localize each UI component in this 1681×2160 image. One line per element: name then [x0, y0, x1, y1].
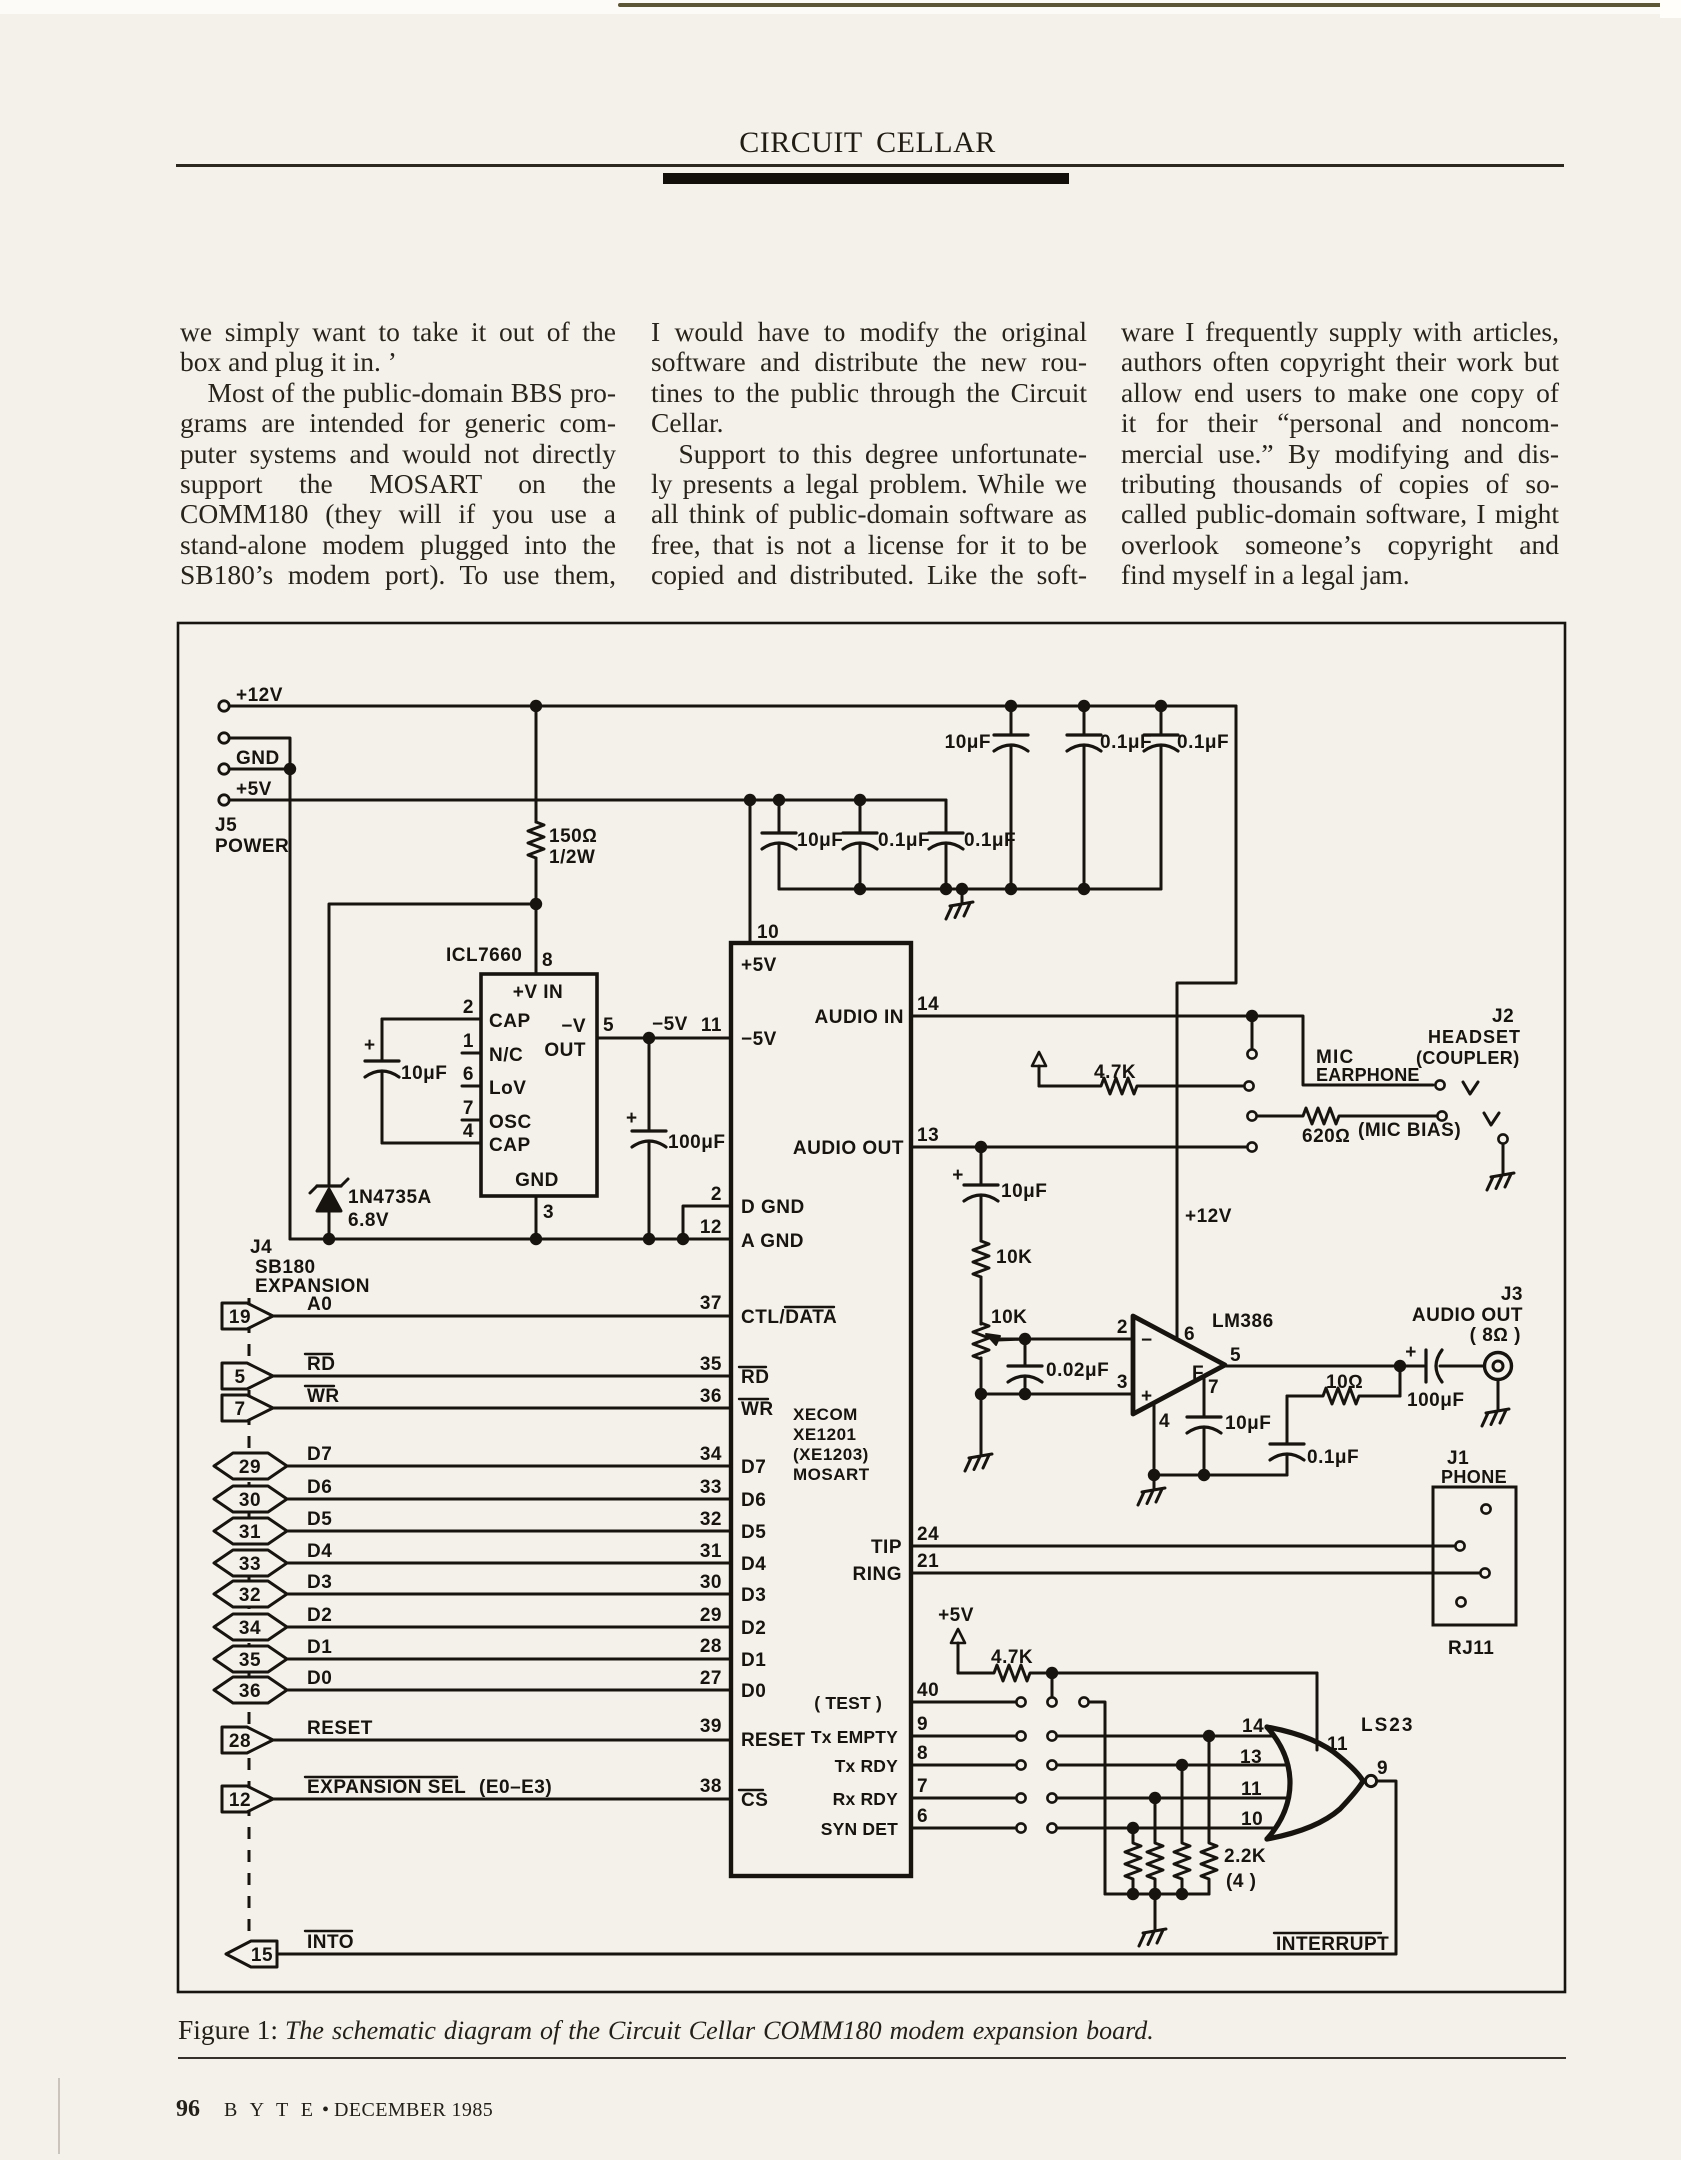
svg-text:GND: GND — [236, 748, 280, 769]
svg-text:INTERRUPT: INTERRUPT — [1276, 1934, 1389, 1955]
svg-text:10μF: 10μF — [401, 1063, 447, 1084]
svg-text:28: 28 — [229, 1731, 251, 1752]
svg-text:10μF: 10μF — [1225, 1413, 1271, 1434]
wire RD — [273, 1375, 731, 1378]
svg-text:0.1μF: 0.1μF — [878, 830, 930, 851]
svg-text:7: 7 — [1208, 1377, 1219, 1398]
wire D GND jog to pin 2 — [683, 1206, 731, 1239]
svg-text:ICL7660: ICL7660 — [446, 945, 522, 966]
ground symbol J3 — [1497, 1396, 1500, 1409]
svg-text:2: 2 — [463, 997, 474, 1018]
switch contact Tx RDY left — [1016, 1760, 1025, 1769]
svg-text:4: 4 — [463, 1121, 474, 1142]
connector J3 phono jack — [1485, 1353, 1512, 1380]
svg-text:0.1μF: 0.1μF — [964, 830, 1016, 851]
junction dot +12V/10uF — [1005, 700, 1017, 712]
svg-text:+: + — [1405, 1342, 1417, 1363]
connector J1 PHONE RJ11 body — [1433, 1487, 1516, 1625]
svg-text:OSC: OSC — [489, 1112, 532, 1133]
resistor 620 ohm (MIC BIAS) — [1257, 1108, 1461, 1147]
svg-text:620Ω: 620Ω — [1302, 1126, 1350, 1147]
J1 contact TIP — [1455, 1541, 1464, 1550]
IC U1 XECOM XE1201 MOSART body — [731, 943, 911, 1876]
switch contact Rx RDY right — [1047, 1793, 1056, 1802]
svg-text:10K: 10K — [991, 1307, 1027, 1328]
svg-text:11: 11 — [1241, 1779, 1262, 1800]
label J1 PHONE — [1441, 1448, 1507, 1487]
ground symbol 2.2K rail — [1154, 1916, 1157, 1929]
connector J5 reference label — [215, 815, 289, 857]
gate U4 LS23 4-input NOR — [1267, 1727, 1363, 1839]
wire pot ground stem — [980, 1394, 983, 1441]
header thin rule — [176, 164, 1564, 167]
svg-text:100μF: 100μF — [668, 1132, 725, 1153]
wire pin 4 to ground rail — [1153, 1404, 1156, 1475]
svg-text:10: 10 — [1241, 1809, 1263, 1830]
svg-text:+5V: +5V — [938, 1605, 974, 1626]
capacitor 0.1uF bypass (+12V row) — [1067, 706, 1152, 889]
svg-text:34: 34 — [239, 1618, 261, 1639]
wire LM386 ground rail — [1154, 1474, 1287, 1477]
svg-text:D7: D7 — [741, 1457, 766, 1478]
svg-text:AUDIO OUT: AUDIO OUT — [793, 1138, 904, 1159]
svg-text:5: 5 — [1230, 1345, 1241, 1366]
op-amp U3 LM386 — [1133, 1316, 1225, 1414]
connector J3 AUDIO OUT (8 ohm) label — [1412, 1284, 1523, 1346]
junction dot +5V / 10uF — [773, 794, 785, 806]
svg-text:LoV: LoV — [489, 1078, 526, 1099]
wire bypass ground rail — [779, 888, 1161, 891]
svg-text:SB180: SB180 — [255, 1257, 316, 1278]
svg-text:35: 35 — [239, 1650, 261, 1671]
resistor 2.2K #3 — [1174, 1765, 1190, 1894]
tag pin 30 — [214, 1486, 287, 1512]
svg-text:D0: D0 — [307, 1668, 332, 1689]
svg-text:4: 4 — [1159, 1411, 1170, 1432]
svg-text:100μF: 100μF — [1407, 1390, 1464, 1411]
svg-text:40: 40 — [917, 1680, 939, 1701]
svg-text:CAP: CAP — [489, 1135, 531, 1156]
junction dot 4.7K / switch common — [1046, 1667, 1058, 1679]
wire (TEST) pin 40 — [911, 1701, 1015, 1704]
capacitor 10uF bypass (+12V row) — [945, 706, 1028, 889]
switch contact 4.7K end — [1244, 1081, 1253, 1090]
svg-text:D4: D4 — [741, 1554, 766, 1575]
svg-text:34: 34 — [700, 1444, 722, 1465]
svg-text:GND: GND — [515, 1170, 559, 1191]
svg-text:21: 21 — [917, 1551, 939, 1572]
svg-text:+: + — [626, 1108, 638, 1129]
wire WR — [273, 1407, 731, 1410]
svg-text:15: 15 — [251, 1945, 273, 1966]
svg-text:6.8V: 6.8V — [348, 1210, 389, 1231]
svg-text:A GND: A GND — [741, 1231, 804, 1252]
svg-text:RING: RING — [853, 1564, 903, 1585]
junction dots on bypass ground rail — [854, 883, 1090, 895]
capacitor 10uF bypass pin 7 — [1187, 1377, 1271, 1475]
wire J2 ground stem — [1502, 1144, 1505, 1160]
svg-text:11: 11 — [1327, 1734, 1348, 1755]
svg-text:11: 11 — [701, 1015, 722, 1036]
junction dot 2.2K #4 — [1203, 1730, 1215, 1742]
svg-text:RD: RD — [307, 1354, 335, 1375]
svg-text:36: 36 — [239, 1681, 261, 1702]
svg-text:J4: J4 — [250, 1237, 272, 1258]
svg-text:13: 13 — [1240, 1747, 1262, 1768]
J2 ground contact — [1498, 1134, 1507, 1143]
junction dot 10uF/ground — [1198, 1469, 1210, 1481]
junction dot AUDIO IN / MIC contact — [1246, 1010, 1258, 1022]
svg-text:5: 5 — [234, 1367, 245, 1388]
switch contact TEST ground side — [1079, 1697, 1088, 1706]
svg-text:35: 35 — [700, 1354, 722, 1375]
svg-text:N/C: N/C — [489, 1045, 523, 1066]
svg-text:D4: D4 — [307, 1541, 332, 1562]
svg-text:J1: J1 — [1447, 1448, 1469, 1469]
svg-text:RESET: RESET — [307, 1718, 373, 1739]
capacitor 0.1uF bypass (+5V row end) — [929, 800, 1016, 889]
potentiometer 10K volume — [973, 1277, 1027, 1394]
tag pin 15 — [226, 1941, 277, 1967]
svg-text:TIP: TIP — [871, 1537, 902, 1558]
svg-text:SYN DET: SYN DET — [821, 1819, 898, 1839]
label 2.2K (4) — [1224, 1846, 1266, 1892]
figure caption — [178, 2014, 1568, 2046]
junction dot pin4/ground — [1148, 1469, 1160, 1481]
junction dot 100uF/ground rail — [643, 1233, 655, 1245]
tag pin 32 — [214, 1581, 287, 1607]
svg-text:INTO: INTO — [307, 1932, 354, 1953]
switch contact mic-bias left — [1247, 1111, 1256, 1120]
capacitor 100uF — [626, 1038, 725, 1239]
svg-text:37: 37 — [700, 1293, 722, 1314]
svg-text:RESET: RESET — [741, 1730, 806, 1751]
switch contact EARPHONE wire end — [1435, 1080, 1444, 1089]
junction dot 150ohm / zener / pin 8 — [530, 898, 542, 910]
tag pin 12 — [222, 1786, 273, 1812]
J2 plug contact hook (mic bias) — [1484, 1113, 1499, 1125]
svg-text:−: − — [1141, 1330, 1153, 1351]
caption rule — [178, 2057, 1566, 2059]
svg-text:19: 19 — [229, 1307, 251, 1328]
svg-text:CTL/DATA: CTL/DATA — [741, 1307, 837, 1328]
svg-text:14: 14 — [917, 994, 939, 1015]
svg-text:RD: RD — [741, 1367, 769, 1388]
svg-text:24: 24 — [917, 1524, 939, 1545]
svg-text:POWER: POWER — [215, 836, 289, 857]
svg-text:−5V: −5V — [741, 1029, 777, 1050]
svg-text:36: 36 — [700, 1386, 722, 1407]
resistor 4.7K pullup — [958, 1647, 1317, 1681]
svg-text:+: + — [364, 1035, 376, 1056]
svg-text:D5: D5 — [741, 1522, 766, 1543]
resistor 2.2K #1 — [1125, 1828, 1141, 1894]
svg-text:9: 9 — [1377, 1758, 1388, 1779]
junction dot -5V / 100uF — [643, 1032, 655, 1044]
svg-text:D5: D5 — [307, 1509, 332, 1530]
wire ICL7660 pin 3 to ground rail — [535, 1196, 538, 1239]
connector J4 SB180 EXPANSION label — [250, 1237, 370, 1297]
pin stub 1 N/C — [462, 1052, 481, 1055]
switch contact SYN DET left — [1016, 1823, 1025, 1832]
svg-text:WR: WR — [307, 1386, 340, 1407]
svg-text:Tx RDY: Tx RDY — [835, 1756, 899, 1776]
power arrow (+12V) for 4.7K pullup — [1032, 1052, 1046, 1066]
svg-text:(COUPLER): (COUPLER) — [1416, 1048, 1520, 1068]
svg-text:13: 13 — [917, 1125, 939, 1146]
junction dot 2.2K #1 — [1127, 1822, 1139, 1834]
svg-text:33: 33 — [239, 1554, 261, 1575]
svg-text:10Ω: 10Ω — [1326, 1372, 1363, 1393]
resistor 10K (divider) — [973, 1241, 1032, 1277]
capacitor 10uF (ICL7660 charge pump) — [364, 1019, 481, 1143]
svg-text:0.1μF: 0.1μF — [1307, 1447, 1359, 1468]
svg-text:+5V: +5V — [741, 955, 777, 976]
tag pin 5 — [222, 1363, 273, 1389]
svg-text:−V: −V — [561, 1016, 586, 1037]
wire RING (pin 21) — [911, 1572, 1479, 1575]
svg-text:30: 30 — [700, 1572, 722, 1593]
svg-text:31: 31 — [700, 1541, 722, 1562]
svg-text:28: 28 — [700, 1636, 722, 1657]
capacitor 10uF (audio coupling) — [952, 1147, 1047, 1241]
svg-text:4.7K: 4.7K — [1094, 1062, 1136, 1083]
svg-text:Rx RDY: Rx RDY — [833, 1789, 899, 1809]
wire J3 ground stem — [1497, 1380, 1500, 1396]
junction dot output/feedback — [1394, 1360, 1406, 1372]
svg-text:4.7K: 4.7K — [991, 1647, 1033, 1668]
svg-text:39: 39 — [700, 1716, 722, 1737]
tag pin 33 — [214, 1550, 287, 1576]
pin stub 4 CAP — [462, 1142, 481, 1145]
resistor 2.2K #4 — [1201, 1736, 1217, 1894]
junction dot 2.2K #3 — [1176, 1759, 1188, 1771]
junction dot +5V / 0.1uF — [854, 794, 866, 806]
resistor 2.2K #2 — [1147, 1798, 1163, 1894]
switch contact TEST — [1016, 1697, 1025, 1706]
J1 contact (unused top) — [1481, 1504, 1490, 1513]
svg-text:31: 31 — [239, 1522, 261, 1543]
label XECOM XE1201 (XE1203) MOSART — [793, 1405, 870, 1484]
wire ground stem 2.2K rail — [1154, 1894, 1157, 1916]
wire Tx RDY to gate input 13 — [1057, 1764, 1286, 1767]
wire D5 — [287, 1530, 731, 1533]
J1 contact (unused bottom) — [1456, 1597, 1465, 1606]
svg-text:−5V: −5V — [652, 1014, 688, 1035]
svg-text:LS23: LS23 — [1361, 1715, 1414, 1736]
svg-text:38: 38 — [700, 1776, 722, 1797]
wire TEST ground side to resistor rail — [1089, 1702, 1105, 1894]
svg-text:(4 ): (4 ) — [1226, 1871, 1257, 1892]
svg-text:D6: D6 — [741, 1490, 766, 1511]
svg-text:D2: D2 — [307, 1605, 332, 1626]
svg-text:HEADSET: HEADSET — [1428, 1027, 1521, 1047]
wire -5V output to MOSART pin 11 — [597, 1037, 731, 1040]
junction dot +12V/0.1uF — [1078, 700, 1090, 712]
svg-text:(XE1203): (XE1203) — [793, 1445, 869, 1464]
pin stub 6 LoV — [462, 1085, 481, 1088]
svg-text:1N4735A: 1N4735A — [348, 1187, 432, 1208]
resistor 10 ohm feedback — [1287, 1372, 1400, 1404]
wire INT0 — [277, 1953, 1396, 1956]
svg-text:+V IN: +V IN — [513, 982, 564, 1003]
svg-text:14: 14 — [1242, 1716, 1264, 1737]
wire 2.2K ground rail — [1105, 1893, 1209, 1896]
svg-text:D GND: D GND — [741, 1197, 805, 1218]
wire cap to J3 jack — [1440, 1365, 1484, 1368]
capacitor 0.1uF zobel — [1270, 1396, 1359, 1475]
svg-text:D2: D2 — [741, 1618, 766, 1639]
svg-text:D6: D6 — [307, 1477, 332, 1498]
junction dot +12V / 150 ohm — [530, 700, 542, 712]
svg-text:XECOM: XECOM — [793, 1405, 858, 1424]
svg-text:12: 12 — [229, 1790, 251, 1811]
wire RESET — [273, 1739, 731, 1742]
svg-text:6: 6 — [1184, 1324, 1195, 1345]
junction dot pin3/ground rail — [530, 1233, 542, 1245]
svg-text:30: 30 — [239, 1490, 261, 1511]
tag pin 34 — [214, 1614, 287, 1640]
wire feedback drop — [1399, 1366, 1402, 1396]
wire MIC contact drop — [1251, 1016, 1254, 1048]
svg-text:+12V: +12V — [1185, 1206, 1232, 1227]
svg-text:F: F — [1192, 1363, 1204, 1384]
switch contact Rx RDY left — [1016, 1793, 1025, 1802]
svg-text:RJ11: RJ11 — [1448, 1638, 1494, 1659]
svg-text:10: 10 — [757, 922, 779, 943]
svg-text:2.2K: 2.2K — [1224, 1846, 1266, 1867]
svg-text:150Ω: 150Ω — [549, 826, 597, 847]
gate output bubble — [1365, 1775, 1376, 1786]
wire MOSART pin 10 (+5V) — [749, 800, 752, 943]
svg-text:D0: D0 — [741, 1681, 766, 1702]
switch contact common — [1047, 1697, 1056, 1706]
svg-text:PHONE: PHONE — [1441, 1467, 1507, 1487]
resistor 150 ohm 1/2W — [528, 706, 597, 904]
svg-text:MOSART: MOSART — [793, 1465, 870, 1484]
J2 plug contact hook (earphone) — [1463, 1082, 1478, 1094]
wire EXPANSION SEL — [273, 1798, 731, 1801]
wire +5V rail — [230, 799, 946, 802]
svg-text:27: 27 — [700, 1668, 722, 1689]
tag pin 28 — [222, 1727, 273, 1753]
junction dot D GND jog — [677, 1233, 689, 1245]
svg-text:(E0–E3): (E0–E3) — [479, 1777, 552, 1798]
tag pin 36 — [214, 1677, 287, 1703]
wire ICL7660 pin 8 — [535, 904, 538, 974]
figure border frame — [178, 623, 1565, 1992]
capacitor 0.02uF — [1008, 1339, 1109, 1394]
svg-text:CS: CS — [741, 1790, 768, 1811]
header CIRCUIT CELLAR — [0, 126, 1681, 160]
svg-text:29: 29 — [239, 1457, 261, 1478]
svg-text:10μF: 10μF — [1001, 1181, 1047, 1202]
wire zener branch — [329, 904, 536, 1184]
svg-text:1: 1 — [463, 1031, 474, 1052]
svg-text:EARPHONE: EARPHONE — [1316, 1065, 1420, 1085]
tag pin 31 — [214, 1518, 287, 1544]
wire GND terminal — [230, 768, 290, 771]
svg-text:+12V: +12V — [236, 685, 283, 706]
capacitor 100uF output — [1405, 1342, 1464, 1411]
tag pin 35 — [214, 1646, 287, 1672]
svg-text:XE1201: XE1201 — [793, 1425, 857, 1444]
svg-text:12: 12 — [700, 1217, 722, 1238]
junction dot GND — [284, 763, 296, 775]
tag pin 7 — [222, 1395, 273, 1421]
svg-text:D3: D3 — [307, 1572, 332, 1593]
junction dot pot bottom — [975, 1388, 987, 1400]
junction dot 2.2K #2 — [1149, 1792, 1161, 1804]
svg-text:Tx EMPTY: Tx EMPTY — [811, 1727, 898, 1747]
wire D6 — [287, 1498, 731, 1501]
capacitor 0.1uF bypass (+12V row end) — [1144, 706, 1229, 889]
wire A0 — [273, 1315, 731, 1318]
wire Rx RDY to gate input 11 — [1057, 1797, 1286, 1800]
junction dot +5V / pin10 stub — [744, 794, 756, 806]
svg-text:D1: D1 — [307, 1637, 332, 1658]
svg-text:CAP: CAP — [489, 1011, 531, 1032]
svg-text:29: 29 — [700, 1605, 722, 1626]
wire D7 — [287, 1465, 731, 1468]
svg-text:J3: J3 — [1501, 1284, 1523, 1305]
junction dots 2.2K rail — [1127, 1888, 1188, 1900]
wire J5 pin2 to GND net — [230, 738, 290, 766]
svg-text:2: 2 — [711, 1184, 722, 1205]
wire pot bottom to LM386 pin 3 — [981, 1393, 1133, 1396]
svg-text:2: 2 — [1117, 1317, 1128, 1338]
svg-text:J2: J2 — [1492, 1006, 1514, 1027]
wire SYN DET to gate input 10 — [1057, 1827, 1274, 1830]
svg-text:LM386: LM386 — [1212, 1311, 1274, 1332]
wire analog ground rail — [290, 1238, 731, 1241]
wire LM386 output pin 5 — [1225, 1365, 1424, 1368]
svg-text:32: 32 — [700, 1509, 722, 1530]
svg-text:( 8Ω ): ( 8Ω ) — [1470, 1325, 1521, 1346]
svg-text:9: 9 — [917, 1714, 928, 1735]
switch contact MIC — [1247, 1049, 1256, 1058]
tag pin 19 — [222, 1303, 273, 1329]
label MIC / EARPHONE — [1316, 1047, 1420, 1085]
switch contact Tx EMPTY left — [1016, 1731, 1025, 1740]
svg-text:32: 32 — [239, 1585, 261, 1606]
wire D2 — [287, 1626, 731, 1629]
svg-text:J5: J5 — [215, 815, 237, 836]
svg-text:AUDIO IN: AUDIO IN — [815, 1007, 905, 1028]
svg-text:10K: 10K — [996, 1247, 1032, 1268]
wire +12V feed down to LM386 pin 6 — [1177, 706, 1236, 1340]
svg-text:D1: D1 — [741, 1650, 766, 1671]
svg-text:3: 3 — [1117, 1372, 1128, 1393]
svg-text:+: + — [952, 1165, 964, 1186]
junction dot +12V/0.1uF end — [1155, 700, 1167, 712]
ground symbol bypass rail — [961, 889, 964, 902]
ground symbol pot — [980, 1441, 983, 1454]
page top scan edge — [0, 0, 1681, 14]
junction dot zener/ground rail — [323, 1233, 335, 1245]
switch contact Tx EMPTY right — [1047, 1731, 1056, 1740]
svg-text:3: 3 — [543, 1202, 554, 1223]
wire GND vertical to analog ground rail — [289, 769, 292, 1239]
svg-text:0.1μF: 0.1μF — [1177, 732, 1229, 753]
ground symbol J2 — [1502, 1160, 1505, 1173]
wire Tx EMPTY pin 9 — [911, 1735, 1015, 1738]
switch contact AUDIO OUT end — [1247, 1142, 1256, 1151]
svg-text:7: 7 — [463, 1098, 474, 1119]
svg-text:( TEST ): ( TEST ) — [814, 1693, 882, 1713]
svg-text:+: + — [1141, 1386, 1153, 1407]
wire switch common stub — [1051, 1673, 1054, 1697]
